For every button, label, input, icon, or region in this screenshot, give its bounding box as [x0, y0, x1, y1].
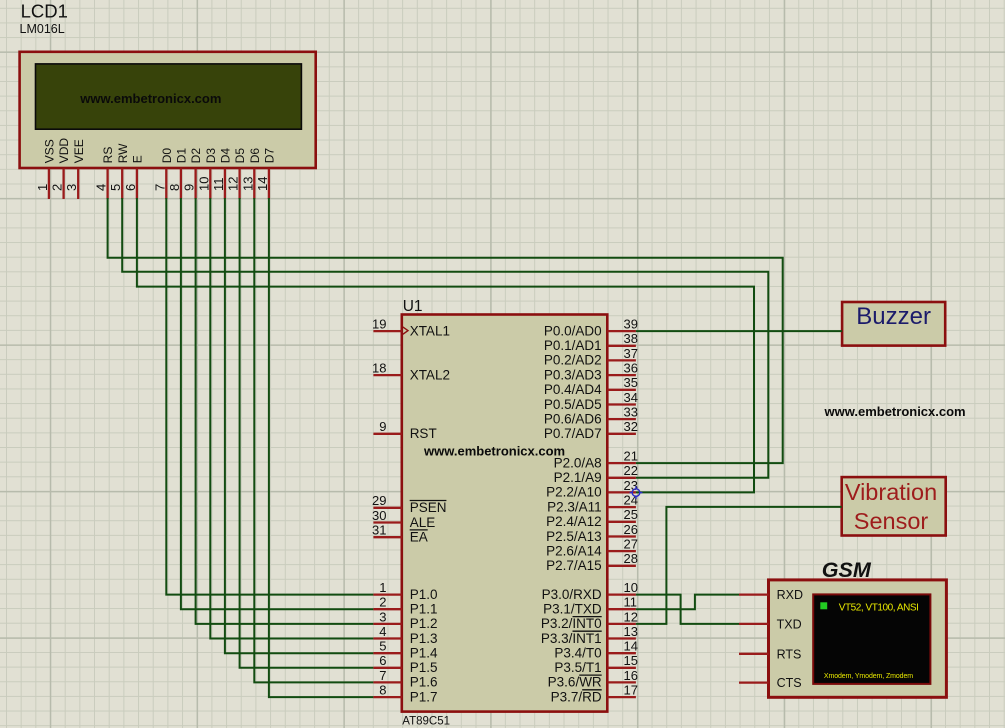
U1 pin 7 stub (left, P1.6)	[373, 681, 401, 683]
wire D5: LCD pin12 to U1 P1.5	[240, 198, 374, 668]
GSM terminal screen	[813, 594, 930, 684]
svg-text:VDD: VDD	[57, 138, 71, 164]
svg-text:www.embetronicx.com: www.embetronicx.com	[423, 444, 565, 459]
svg-text:P0.5/AD5: P0.5/AD5	[544, 397, 602, 412]
wire D1: LCD pin8 to U1 P1.1	[181, 198, 374, 609]
svg-text:24: 24	[624, 493, 638, 508]
svg-text:39: 39	[624, 317, 638, 332]
LCD pin 5 stub	[121, 169, 123, 200]
U1 XTAL1 clock input chevron	[403, 327, 408, 334]
svg-text:Buzzer: Buzzer	[856, 303, 931, 330]
U1 overline for INT1	[573, 630, 602, 632]
svg-text:6: 6	[379, 653, 386, 668]
svg-text:13: 13	[240, 177, 255, 191]
wire RW: LCD pin5 to U1 P2.1/A9	[122, 198, 768, 478]
svg-text:P2.4/A12: P2.4/A12	[546, 514, 602, 529]
GSM screen green status square	[820, 602, 827, 609]
U1 pin 23 stub (right, P2.2/A10)	[607, 491, 636, 493]
U1 pin 6 stub (left, P1.5)	[373, 667, 401, 669]
wire U1 P3.0/RXD to GSM TXD	[636, 595, 739, 624]
U1 pin 5 stub (left, P1.4)	[373, 652, 401, 654]
svg-text:17: 17	[624, 683, 638, 698]
svg-text:Sensor: Sensor	[854, 508, 929, 534]
LCD pin 14 stub	[268, 169, 270, 200]
U1 pin 2 stub (left, P1.1)	[373, 608, 401, 610]
svg-text:30: 30	[372, 508, 386, 523]
U1 pin 37 stub (right, P0.2/AD2)	[607, 359, 636, 361]
U1 pin 30 stub (left, ALE)	[373, 521, 401, 523]
U1 pin 8 stub (left, P1.7)	[373, 696, 401, 698]
svg-text:P2.1/A9: P2.1/A9	[554, 470, 602, 485]
U1 pin 14 stub (right, P3.4/T0)	[607, 652, 636, 654]
svg-text:P0.3/AD3: P0.3/AD3	[544, 367, 602, 382]
svg-text:12: 12	[624, 609, 638, 624]
svg-text:18: 18	[372, 361, 386, 376]
svg-text:www.embetronicx.com: www.embetronicx.com	[824, 404, 966, 419]
svg-text:14: 14	[255, 177, 270, 191]
LCD LCD1 display screen	[36, 64, 302, 129]
svg-text:P2.7/A15: P2.7/A15	[546, 558, 602, 573]
U1 pin 1 stub (left, P1.0)	[373, 593, 401, 595]
svg-text:35: 35	[624, 375, 638, 390]
svg-text:32: 32	[624, 419, 638, 434]
LCD pin 13 stub	[253, 169, 255, 200]
svg-text:8: 8	[379, 683, 386, 698]
svg-text:RTS: RTS	[777, 647, 802, 661]
wire U1 P3.1/TXD to GSM RXD	[636, 595, 739, 610]
U1 pin 15 stub (right, P3.5/T1)	[607, 667, 636, 669]
U1 pin 27 stub (right, P2.6/A14)	[607, 550, 636, 552]
svg-text:TXD: TXD	[777, 618, 802, 632]
GSM pin stub TXD	[739, 623, 769, 625]
GSM pin stub RTS	[739, 653, 769, 655]
svg-text:www.embetronicx.com: www.embetronicx.com	[79, 91, 221, 106]
microcontroller U1 body AT89C51	[402, 315, 608, 712]
svg-text:3: 3	[64, 184, 79, 191]
svg-text:1: 1	[379, 580, 386, 595]
svg-text:P2.5/A13: P2.5/A13	[546, 529, 602, 544]
U1 pin 18 stub (left, XTAL2)	[373, 374, 401, 376]
U1 overline for WR	[579, 674, 602, 676]
svg-text:6: 6	[123, 184, 138, 191]
svg-text:8: 8	[167, 184, 182, 191]
wire D4: LCD pin11 to U1 P1.4	[225, 198, 374, 653]
U1 pin 16 stub (right, P3.6/WR)	[607, 681, 636, 683]
svg-text:28: 28	[624, 551, 638, 566]
svg-text:P3.1/TXD: P3.1/TXD	[543, 602, 602, 617]
svg-text:P1.2: P1.2	[410, 616, 438, 631]
LCD pin 10 stub	[209, 169, 211, 200]
svg-text:33: 33	[624, 405, 638, 420]
svg-text:Vibration: Vibration	[845, 479, 937, 505]
svg-text:RXD: RXD	[777, 588, 803, 602]
svg-text:21: 21	[624, 449, 638, 464]
svg-text:25: 25	[624, 507, 638, 522]
svg-text:RW: RW	[116, 143, 130, 163]
svg-text:P0.6/AD6: P0.6/AD6	[544, 411, 602, 426]
svg-text:P3.3/INT1: P3.3/INT1	[541, 631, 602, 646]
U1 pin 34 stub (right, P0.5/AD5)	[607, 403, 636, 405]
LCD pin 8 stub	[180, 169, 182, 200]
U1 pin 21 stub (right, P2.0/A8)	[607, 462, 636, 464]
svg-text:P0.1/AD1: P0.1/AD1	[544, 338, 602, 353]
svg-text:13: 13	[624, 624, 638, 639]
svg-text:P1.6: P1.6	[410, 675, 438, 690]
wire D0: LCD pin7 to U1 P1.0	[166, 198, 373, 595]
svg-text:22: 22	[624, 463, 638, 478]
svg-text:P1.4: P1.4	[410, 646, 438, 661]
U1 pin 33 stub (right, P0.6/AD6)	[607, 418, 636, 420]
svg-text:19: 19	[372, 317, 386, 332]
U1 pin 26 stub (right, P2.5/A13)	[607, 535, 636, 537]
LCD pin 3 stub	[77, 169, 79, 200]
U1 pin 13 stub (right, P3.3/INT1)	[607, 637, 636, 639]
svg-text:9: 9	[379, 419, 386, 434]
svg-text:P0.0/AD0: P0.0/AD0	[544, 323, 602, 338]
U1 overline for PSEN	[410, 500, 447, 502]
svg-text:E: E	[131, 155, 145, 163]
U1 pin 35 stub (right, P0.4/AD4)	[607, 389, 636, 391]
svg-text:27: 27	[624, 537, 638, 552]
U1 pin 39 stub (right, P0.0/AD0)	[607, 330, 636, 332]
wire E: LCD pin6 to U1 P2.2/A10	[137, 198, 754, 492]
U1 pin 19 stub (left, XTAL1)	[373, 330, 401, 332]
U1 pin 9 stub (left, RST)	[373, 433, 401, 435]
svg-text:2: 2	[379, 595, 386, 610]
svg-text:RS: RS	[101, 147, 115, 164]
svg-text:P0.4/AD4: P0.4/AD4	[544, 382, 602, 397]
U1 pin 3 stub (left, P1.2)	[373, 623, 401, 625]
svg-text:AT89C51: AT89C51	[402, 716, 450, 728]
svg-text:LCD1: LCD1	[21, 1, 68, 22]
U1 pin 28 stub (right, P2.7/A15)	[607, 565, 636, 567]
svg-text:EA: EA	[410, 530, 428, 545]
U1 pin 32 stub (right, P0.7/AD7)	[607, 433, 636, 435]
svg-text:P2.0/A8: P2.0/A8	[554, 455, 602, 470]
svg-text:P3.0/RXD: P3.0/RXD	[542, 587, 602, 602]
svg-text:P0.2/AD2: P0.2/AD2	[544, 353, 602, 368]
cursor origin marker (blue crosshair) near U1 pin 23	[630, 486, 643, 499]
svg-text:29: 29	[372, 493, 386, 508]
U1 pin 4 stub (left, P1.3)	[373, 637, 401, 639]
svg-text:36: 36	[624, 361, 638, 376]
svg-text:P1.7: P1.7	[410, 689, 438, 704]
svg-text:P2.3/A11: P2.3/A11	[547, 499, 602, 514]
U1 pin 22 stub (right, P2.1/A9)	[607, 477, 636, 479]
svg-text:LM016L: LM016L	[20, 22, 65, 36]
U1 pin 36 stub (right, P0.3/AD3)	[607, 374, 636, 376]
svg-text:P1.3: P1.3	[410, 631, 438, 646]
LCD pin 12 stub	[238, 169, 240, 200]
wire vibration sensor to U1 P3.2/INT0	[636, 507, 842, 624]
svg-text:XTAL1: XTAL1	[410, 323, 450, 338]
svg-text:CTS: CTS	[777, 676, 802, 690]
svg-text:4: 4	[94, 184, 109, 191]
svg-text:10: 10	[196, 177, 211, 191]
GSM pin stub CTS	[739, 681, 769, 683]
svg-text:P2.2/A10: P2.2/A10	[546, 485, 602, 500]
svg-text:D4: D4	[219, 148, 233, 164]
LCD pin 11 stub	[224, 169, 226, 200]
wire U1 P0.0/AD0 to buzzer	[636, 330, 842, 332]
svg-text:5: 5	[379, 639, 386, 654]
LCD pin 4 stub	[106, 169, 108, 200]
wire RS: LCD pin4 to U1 P2.0/A8	[108, 198, 783, 463]
U1 pin 38 stub (right, P0.1/AD1)	[607, 345, 636, 347]
wire D3: LCD pin10 to U1 P1.3	[210, 198, 373, 639]
svg-text:D0: D0	[160, 148, 174, 164]
svg-text:14: 14	[624, 639, 638, 654]
U1 pin 25 stub (right, P2.4/A12)	[607, 521, 636, 523]
U1 pin 11 stub (right, P3.1/TXD)	[607, 608, 636, 610]
svg-text:D6: D6	[248, 148, 262, 164]
svg-text:16: 16	[624, 668, 638, 683]
U1 overline for RD	[582, 689, 602, 691]
svg-text:1: 1	[35, 184, 50, 191]
svg-text:P3.4/T0: P3.4/T0	[554, 646, 601, 661]
svg-text:P3.6/WR: P3.6/WR	[548, 675, 602, 690]
svg-text:15: 15	[624, 653, 638, 668]
U1 pin 12 stub (right, P3.2/INT0)	[607, 623, 636, 625]
svg-text:34: 34	[624, 390, 638, 405]
LCD pin 7 stub	[165, 169, 167, 200]
LCD pin 1 stub	[48, 169, 50, 200]
svg-text:11: 11	[211, 178, 226, 192]
svg-text:7: 7	[152, 184, 167, 191]
svg-text:38: 38	[624, 331, 638, 346]
svg-text:P0.7/AD7: P0.7/AD7	[544, 426, 602, 441]
svg-text:VSS: VSS	[43, 139, 57, 163]
svg-text:P3.2/INT0: P3.2/INT0	[541, 616, 602, 631]
svg-text:37: 37	[624, 346, 638, 361]
U1 overline for EA	[410, 529, 428, 531]
vibration sensor block	[842, 477, 946, 535]
svg-text:XTAL2: XTAL2	[410, 367, 450, 382]
wire D2: LCD pin9 to U1 P1.2	[196, 198, 374, 624]
svg-text:10: 10	[624, 580, 638, 595]
buzzer block	[842, 302, 945, 346]
svg-text:D1: D1	[175, 148, 189, 164]
svg-text:5: 5	[108, 184, 123, 191]
U1 pin 29 stub (left, PSEN)	[373, 507, 401, 509]
svg-text:4: 4	[379, 624, 386, 639]
U1 pin 17 stub (right, P3.7/RD)	[607, 696, 636, 698]
U1 pin 31 stub (left, EA)	[373, 536, 401, 538]
svg-text:3: 3	[379, 609, 386, 624]
svg-text:D2: D2	[189, 148, 203, 164]
svg-text:VEE: VEE	[72, 139, 86, 163]
svg-text:PSEN: PSEN	[410, 500, 447, 515]
svg-text:12: 12	[226, 177, 241, 191]
LCD pin 2 stub	[62, 169, 64, 200]
svg-text:RST: RST	[410, 426, 437, 441]
svg-text:7: 7	[379, 668, 386, 683]
svg-text:P1.1: P1.1	[410, 602, 438, 617]
svg-text:23: 23	[624, 478, 638, 493]
LCD LCD1 body	[20, 52, 316, 168]
svg-text:P1.0: P1.0	[410, 587, 438, 602]
svg-text:ALE: ALE	[410, 515, 436, 530]
wire D6: LCD pin13 to U1 P1.6	[254, 198, 373, 682]
LCD pin 6 stub	[136, 169, 138, 200]
svg-text:P3.5/T1: P3.5/T1	[554, 660, 601, 675]
svg-text:D7: D7	[263, 148, 277, 164]
svg-text:P1.5: P1.5	[410, 660, 438, 675]
GSM terminal body	[769, 580, 947, 697]
svg-text:D5: D5	[233, 148, 247, 164]
wire D7: LCD pin14 to U1 P1.7	[269, 198, 374, 697]
svg-text:31: 31	[372, 523, 386, 538]
U1 overline for INT0	[573, 616, 602, 618]
svg-text:11: 11	[624, 595, 638, 610]
svg-text:2: 2	[50, 184, 65, 191]
LCD pin 9 stub	[194, 169, 196, 200]
svg-text:VT52, VT100, ANSI: VT52, VT100, ANSI	[839, 603, 919, 614]
GSM pin stub RXD	[739, 593, 769, 595]
svg-text:26: 26	[624, 522, 638, 537]
svg-text:D3: D3	[204, 148, 218, 164]
svg-text:P2.6/A14: P2.6/A14	[546, 543, 602, 558]
svg-text:9: 9	[182, 184, 197, 191]
svg-text:Xmodem, Ymodem, Zmodem: Xmodem, Ymodem, Zmodem	[824, 673, 913, 680]
svg-text:P3.7/RD: P3.7/RD	[551, 689, 602, 704]
U1 pin 10 stub (right, P3.0/RXD)	[607, 593, 636, 595]
svg-text:U1: U1	[403, 298, 423, 315]
U1 pin 24 stub (right, P2.3/A11)	[607, 506, 636, 508]
